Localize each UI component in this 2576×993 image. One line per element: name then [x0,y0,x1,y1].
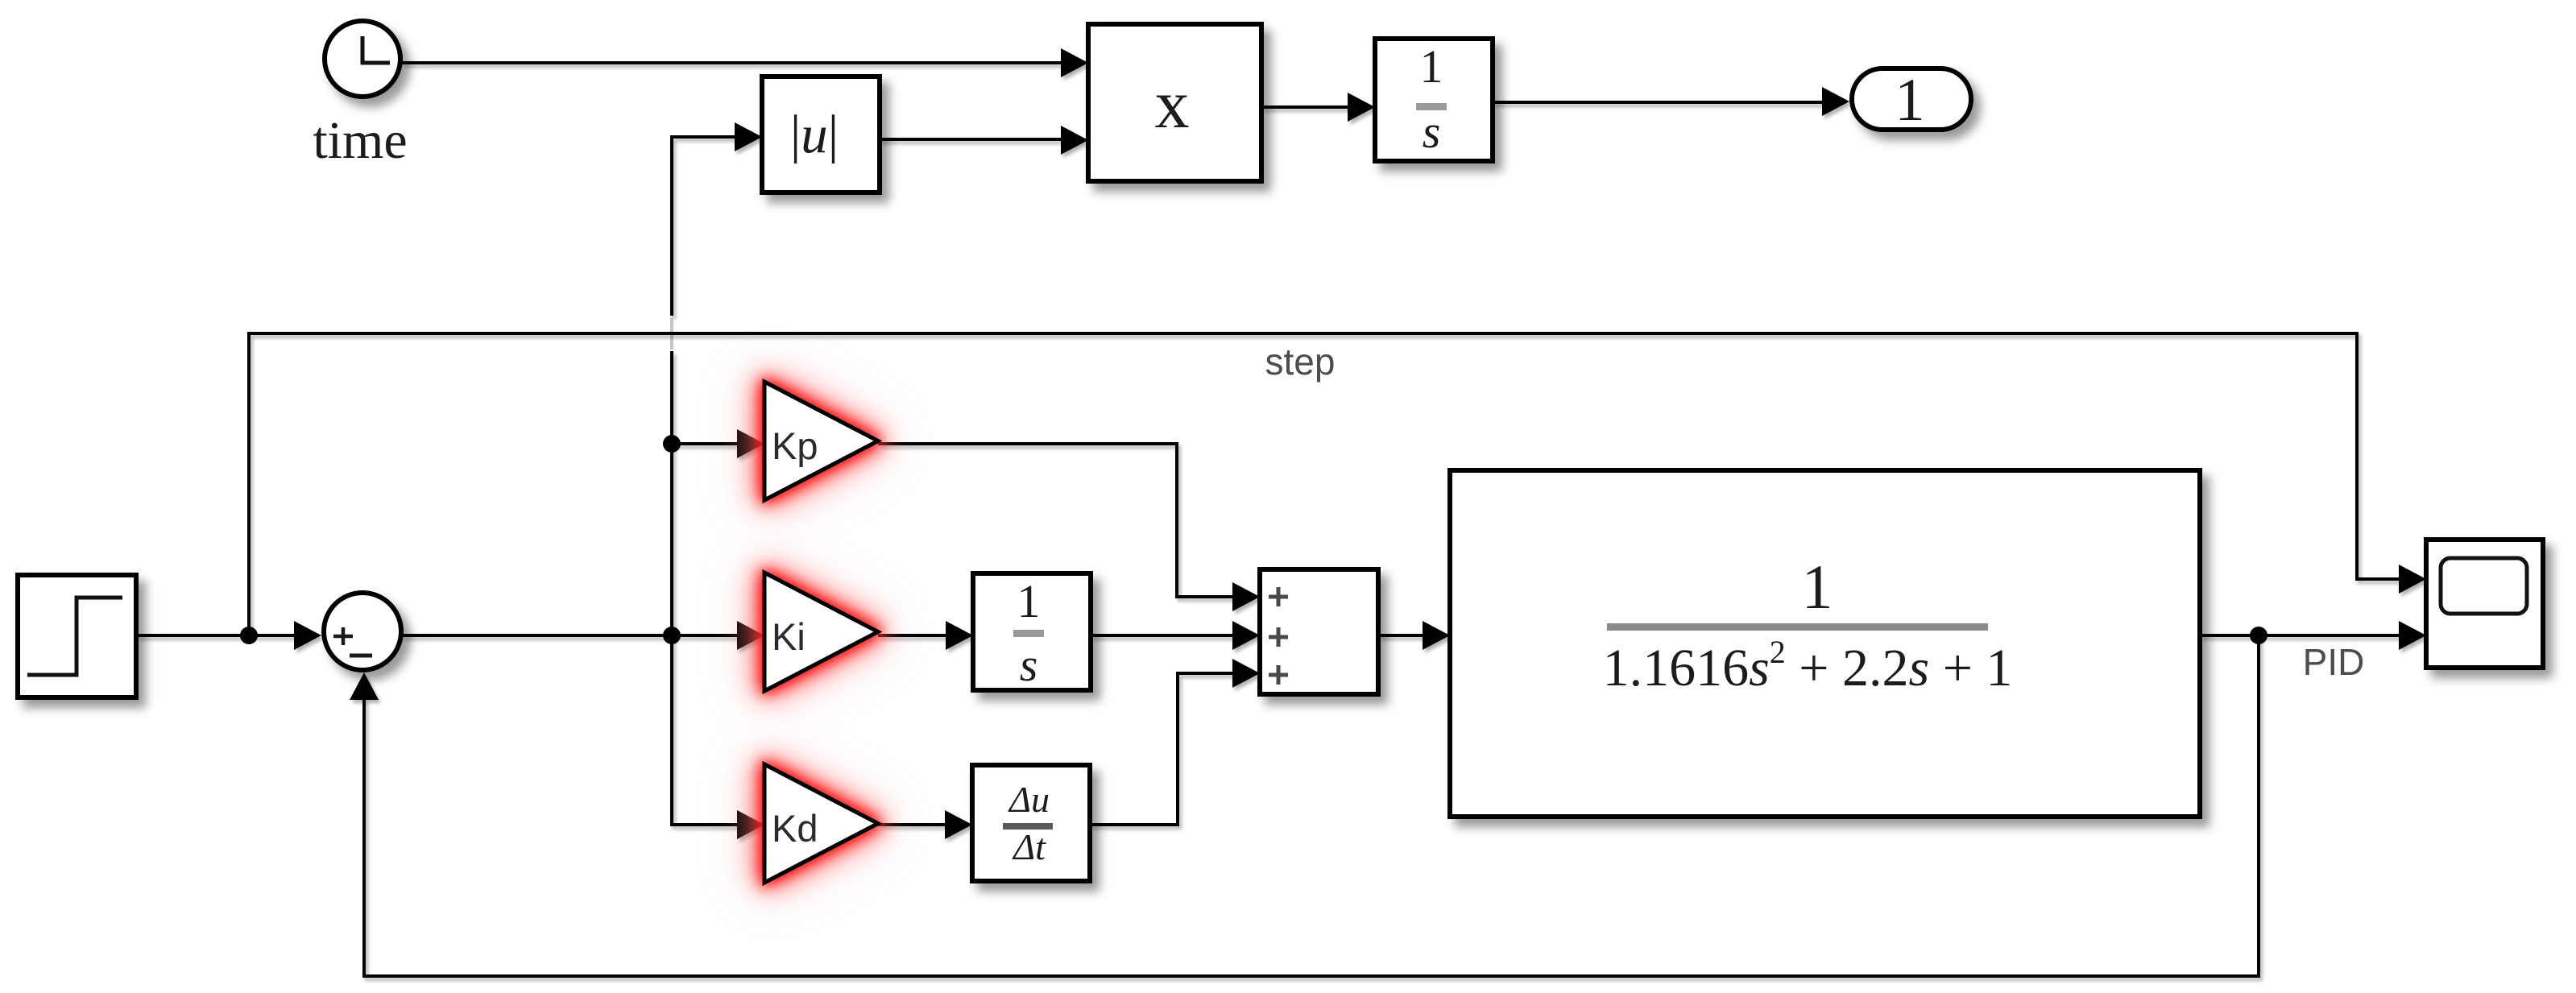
wire adder to plant [1378,621,1450,650]
integrator1 block 1/s [1375,39,1493,161]
wire integrator1 to outport [1493,87,1849,116]
sum block [324,593,401,670]
wire product to integrator1 [1261,93,1375,122]
svg-text:1.1616s2 + 2.2s + 1: 1.1616s2 + 2.2s + 1 [1603,634,2013,697]
derivative block du/dt [972,765,1090,881]
wire derivative to adder input 3 [1090,659,1260,825]
svg-text:s: s [1020,639,1038,691]
svg-text:s: s [1423,106,1441,158]
svg-text:PID: PID [2303,641,2365,683]
wire error bus vertical (node e) [672,122,762,823]
svg-text:1: 1 [1420,40,1443,93]
wire abs to product block [880,126,1088,155]
product block x [1088,24,1261,181]
plant transfer function block [1450,470,2200,817]
svg-text:1: 1 [1017,575,1041,627]
svg-text:|u|: |u| [790,105,839,164]
wire integrator2 to adder input 2 [1091,621,1260,650]
wire plant to scope input 2 (node PID) [2200,621,2426,650]
svg-text:Kp: Kp [772,424,818,467]
wire Kd to derivative block [878,810,972,839]
wire sum output to Ki (node error) [403,621,764,650]
scope block [2426,540,2543,668]
svg-text:x: x [1155,65,1190,143]
wire Ki to integrator2 [878,621,973,650]
integrator2 block 1/s [973,573,1091,691]
wire Kp to adder input 1 [878,444,1260,611]
svg-text:Δu: Δu [1008,779,1050,820]
wire clock to product block [402,48,1088,77]
svg-text:step: step [1265,341,1336,383]
abs block |u| [762,77,880,192]
step source block [18,575,136,697]
wire branch to Kp [663,429,764,458]
svg-text:Ki: Ki [772,615,806,658]
wire step source to sum junction [136,621,321,650]
gain Kd [764,764,878,883]
wire feedback to sum minus input [350,635,2259,976]
wire step branch to scope input 1 [249,333,2426,635]
gain Ki [764,573,878,691]
adder block +++ [1260,569,1378,694]
gain Kp [764,382,878,500]
svg-text:Δt: Δt [1012,826,1046,867]
svg-text:time: time [313,111,407,170]
clock block [325,21,400,97]
wire bus corner to Kd [672,810,764,839]
outport 1 [1852,67,1971,134]
svg-text:1: 1 [1802,552,1833,622]
svg-text:Kd: Kd [772,807,818,850]
svg-text:1: 1 [1895,67,1925,134]
